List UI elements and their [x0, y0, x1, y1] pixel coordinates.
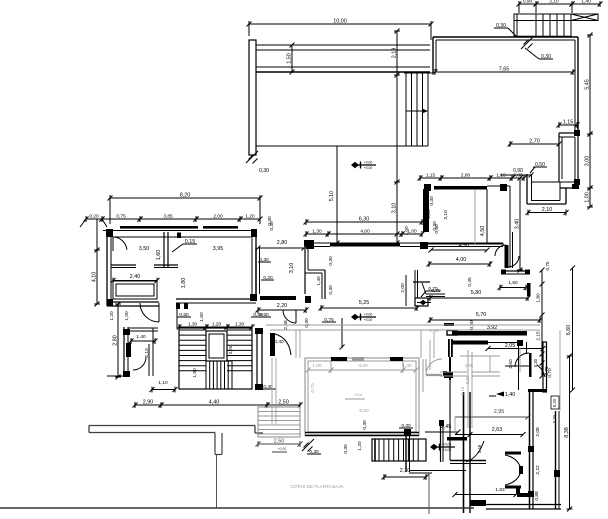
svg-text:2,90: 2,90 [143, 400, 154, 406]
svg-text:0,60: 0,60 [434, 224, 440, 234]
svg-text:2,95: 2,95 [494, 409, 505, 415]
svg-text:0,45: 0,45 [467, 277, 473, 287]
svg-text:2,08: 2,08 [535, 427, 541, 437]
svg-text:0,75: 0,75 [545, 261, 550, 270]
svg-text:4,10: 4,10 [92, 272, 98, 283]
svg-text:2,19: 2,19 [392, 48, 398, 59]
svg-text:2,10: 2,10 [542, 207, 553, 213]
svg-text:1,20: 1,20 [357, 441, 363, 451]
svg-text:0,30: 0,30 [269, 221, 275, 231]
svg-text:1,80: 1,80 [181, 278, 187, 289]
svg-text:1,40: 1,40 [136, 334, 146, 340]
svg-text:7,65: 7,65 [499, 67, 510, 73]
svg-text:0,30: 0,30 [533, 358, 538, 367]
svg-text:1,30: 1,30 [188, 322, 198, 328]
svg-text:8,20: 8,20 [180, 193, 191, 199]
svg-text:2,20: 2,20 [426, 209, 432, 219]
svg-text:8,38: 8,38 [564, 427, 570, 438]
svg-text:5,80: 5,80 [471, 290, 482, 296]
svg-text:1,60: 1,60 [156, 250, 162, 261]
svg-text:1,20: 1,20 [245, 214, 255, 220]
svg-text:1,00: 1,00 [404, 226, 410, 236]
svg-text:0,20: 0,20 [89, 214, 99, 220]
svg-text:1,30: 1,30 [235, 322, 245, 328]
svg-text:1,20: 1,20 [212, 322, 222, 328]
svg-text:0,70: 0,70 [310, 383, 316, 393]
svg-text:3,85: 3,85 [163, 214, 173, 220]
svg-text:2,50: 2,50 [278, 400, 289, 406]
svg-text:1,15: 1,15 [460, 386, 465, 395]
svg-text:2,05: 2,05 [465, 363, 474, 368]
svg-text:0,30: 0,30 [465, 375, 470, 384]
svg-text:0,30: 0,30 [328, 256, 334, 266]
svg-text:2,50: 2,50 [274, 439, 285, 445]
svg-text:0,26: 0,26 [228, 345, 233, 354]
svg-text:0,70: 0,70 [431, 288, 441, 294]
svg-text:2,80: 2,80 [277, 240, 288, 246]
svg-text:0,30: 0,30 [328, 285, 334, 295]
svg-text:+0,00: +0,00 [364, 166, 373, 170]
svg-text:6,30: 6,30 [359, 217, 370, 223]
svg-text:0,40: 0,40 [274, 339, 284, 345]
svg-text:2,63: 2,63 [492, 427, 503, 433]
svg-text:5,25: 5,25 [359, 300, 370, 306]
svg-text:6,00: 6,00 [359, 408, 369, 414]
svg-text:1,60: 1,60 [199, 312, 205, 322]
svg-text:0,20: 0,20 [552, 414, 557, 423]
svg-text:2,22: 2,22 [535, 465, 541, 475]
svg-text:1,80: 1,80 [536, 293, 542, 303]
svg-text:0,88: 0,88 [534, 491, 540, 501]
svg-text:4,50: 4,50 [459, 243, 470, 249]
svg-text:5,10: 5,10 [329, 191, 335, 201]
svg-text:0,30: 0,30 [259, 168, 269, 174]
svg-text:1,15: 1,15 [563, 120, 574, 126]
svg-text:+0,00: +0,00 [364, 313, 373, 317]
svg-text:1,20: 1,20 [109, 311, 115, 321]
svg-text:4,00: 4,00 [358, 363, 368, 369]
svg-text:1,40: 1,40 [316, 276, 322, 286]
svg-text:1,10: 1,10 [158, 380, 168, 386]
svg-text:1,15: 1,15 [426, 173, 436, 179]
svg-text:3,95: 3,95 [213, 246, 224, 252]
svg-text:0,30: 0,30 [429, 196, 435, 206]
svg-text:4,50: 4,50 [480, 226, 486, 237]
svg-text:4,00: 4,00 [360, 229, 370, 235]
svg-text:+0,00: +0,00 [354, 393, 363, 397]
svg-text:6,60: 6,60 [566, 325, 572, 336]
svg-text:2,60: 2,60 [508, 359, 514, 369]
svg-text:5,45: 5,45 [585, 79, 591, 90]
svg-text:1,30: 1,30 [312, 229, 322, 235]
svg-text:2,10: 2,10 [549, 0, 559, 5]
svg-text:3,10: 3,10 [289, 263, 295, 274]
svg-text:2,15: 2,15 [536, 331, 542, 341]
svg-text:2,20: 2,20 [277, 303, 288, 309]
svg-text:1,15: 1,15 [496, 173, 506, 179]
svg-text:1,00: 1,00 [585, 192, 591, 203]
svg-text:2,80: 2,80 [461, 173, 471, 179]
svg-text:1,50: 1,50 [287, 53, 293, 64]
svg-text:4,00: 4,00 [456, 257, 467, 263]
svg-text:2,10: 2,10 [400, 468, 411, 474]
svg-text:1,00: 1,00 [124, 311, 130, 321]
svg-text:1,40: 1,40 [581, 0, 591, 5]
svg-text:0,90: 0,90 [523, 0, 533, 5]
svg-text:3,10: 3,10 [443, 210, 449, 220]
svg-text:1,50: 1,50 [508, 280, 518, 286]
svg-text:0,70: 0,70 [544, 366, 549, 375]
svg-text:+0,00: +0,00 [278, 447, 287, 451]
svg-text:1,40: 1,40 [505, 392, 516, 398]
svg-text:3,40: 3,40 [515, 219, 521, 230]
svg-text:2,80: 2,80 [113, 335, 119, 346]
svg-text:3,10: 3,10 [392, 203, 398, 214]
svg-text:1,83: 1,83 [495, 487, 505, 493]
svg-text:0,20: 0,20 [552, 398, 557, 407]
svg-text:+0,00: +0,00 [364, 318, 373, 322]
svg-text:1,90: 1,90 [192, 368, 198, 378]
svg-text:1,00: 1,00 [402, 363, 412, 369]
svg-text:0,30: 0,30 [362, 420, 368, 430]
svg-text:2,40: 2,40 [130, 274, 141, 280]
svg-text:2,00: 2,00 [400, 283, 406, 293]
svg-text:0,30: 0,30 [343, 444, 349, 454]
svg-text:3,50: 3,50 [139, 246, 150, 252]
svg-text:COTAS DE PLANTA BAJA: COTAS DE PLANTA BAJA [290, 484, 343, 489]
svg-text:5,70: 5,70 [476, 312, 487, 318]
svg-text:1,00: 1,00 [312, 363, 322, 369]
svg-text:0,75: 0,75 [116, 214, 126, 220]
svg-text:10,00: 10,00 [333, 19, 347, 25]
svg-text:0,30: 0,30 [304, 318, 310, 328]
svg-text:3,00: 3,00 [585, 156, 591, 167]
svg-text:2,00: 2,00 [213, 214, 223, 220]
svg-text:2,70: 2,70 [529, 139, 540, 145]
svg-text:+0,00: +0,00 [364, 161, 373, 165]
svg-text:4,40: 4,40 [209, 400, 220, 406]
svg-text:0,48: 0,48 [477, 444, 482, 453]
